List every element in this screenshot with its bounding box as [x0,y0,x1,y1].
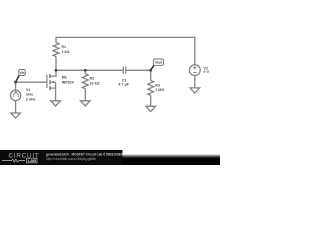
ground under V2 [190,88,200,93]
svg-text:V1: V1 [26,88,31,92]
wire Vin node down to V1 [15,82,17,90]
svg-text:9 V: 9 V [204,70,210,74]
junction node at drain [55,69,58,72]
svg-text:sine: sine [26,93,33,97]
voltage source V1 circle [10,90,20,100]
junction node at Vout [149,69,152,72]
wire C1 right plate to Vout node [126,69,151,71]
svg-text:10 kΩ: 10 kΩ [90,81,100,85]
M1 body arrowhead [51,81,54,83]
V1 sine arrowhead [15,91,17,93]
footer gradient bar [0,154,220,165]
resistor R1 [53,43,59,57]
svg-text:1 kΩ: 1 kΩ [61,50,69,54]
node flag Vin [16,70,26,82]
svg-text:1 MΩ: 1 MΩ [155,88,164,92]
svg-text:M1: M1 [62,76,67,80]
svg-text:R2: R2 [90,77,95,81]
wire V1 bottom to ground [15,101,17,113]
transistor M1 gate bar [46,75,48,88]
transistor M1 drain lead [51,70,56,76]
svg-text:R3: R3 [155,84,160,88]
ground under R2 [81,101,91,106]
ground under V1 [11,113,21,118]
wire top rail from R1 top to V2 top [56,37,195,64]
svg-text:Vout: Vout [155,61,163,65]
svg-text:http://circuitlab.com/c/8fq3qy: http://circuitlab.com/c/8fq3qygt65b [46,157,96,161]
transistor M1 body line [51,81,55,83]
svg-text:LAB: LAB [28,158,36,163]
svg-text:4.7 µF: 4.7 µF [118,83,129,87]
resistor R3 [148,70,154,95]
junction node at R2 top [84,69,87,72]
node flag Vout [151,59,164,70]
wire drain node to C1 left plate [56,69,123,71]
svg-text:Vin: Vin [20,71,25,75]
svg-text:2 kHz: 2 kHz [26,97,36,101]
capacitor C1 [123,67,125,74]
wire gate to Vin node [16,81,47,83]
transistor M1 channel dashes [49,74,51,90]
junction node at Vin [14,81,17,84]
footer black block [0,150,123,165]
ground under R3 [146,106,156,111]
footer logo wire and LAB [2,158,37,163]
svg-text:R1: R1 [61,45,66,49]
resistor R2 [82,70,88,88]
wire R1 bottom to drain node [55,57,57,71]
voltage source V2 circle [189,65,200,76]
V2 plus sign [193,66,197,70]
wire R3 bottom to ground [150,95,152,106]
ground under M1 source [51,101,61,106]
transistor M1 source lead [51,82,56,101]
V2 minus sign [193,72,197,74]
svg-text:IRF520: IRF520 [62,80,74,84]
wire V2 bottom to ground [194,76,196,88]
V1 sine symbol [13,92,19,97]
svg-text:generated2d2h : MOSFET Circuit: generated2d2h : MOSFET Circuit Lab 6 09E… [46,152,123,156]
wire R2 bottom to ground [84,89,86,101]
